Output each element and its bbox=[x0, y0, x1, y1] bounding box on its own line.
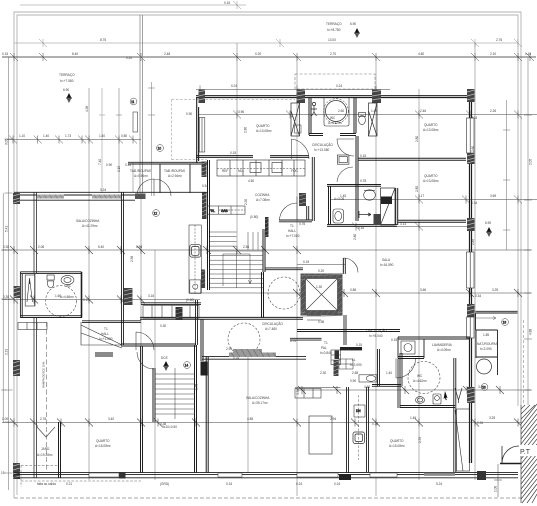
svg-text:5.40: 5.40 bbox=[98, 245, 104, 249]
svg-text:HALL: HALL bbox=[101, 332, 109, 336]
svg-text:SALA/COZINHA: SALA/COZINHA bbox=[76, 219, 100, 223]
svg-text:P.T: P.T bbox=[520, 449, 531, 456]
quarto bottom-left label bbox=[95, 439, 111, 448]
pantry wall x367 bbox=[367, 387, 369, 472]
dimension row y43 labels bbox=[100, 38, 502, 42]
border frame bottom dashed bbox=[14, 497, 537, 499]
svg-text:WC: WC bbox=[330, 116, 336, 120]
kitchen cabinets below stairs2 bbox=[143, 306, 199, 319]
window casement right top bbox=[369, 103, 378, 136]
svg-text:DN: DN bbox=[356, 409, 361, 413]
dimension line y139 left bbox=[7, 136, 141, 144]
circled 19 right bbox=[502, 319, 509, 326]
TAB ROUPAS label 1 bbox=[130, 169, 151, 178]
column hatched x202 y269 bbox=[201, 270, 205, 289]
tank circle bbox=[477, 359, 492, 374]
lavanderia sink bbox=[401, 341, 415, 354]
bath toilet bbox=[47, 275, 54, 288]
wall top of bedrooms y97 bbox=[196, 96, 470, 98]
window sill bar 1 bbox=[37, 195, 64, 199]
svg-text:12: 12 bbox=[154, 211, 158, 215]
hall walls left bbox=[121, 192, 198, 422]
svg-text:h=+8.040: h=+8.040 bbox=[369, 334, 383, 338]
window bar bottom 1 bbox=[89, 473, 119, 477]
window right wall 3 bbox=[467, 317, 475, 338]
svg-text:A=3.08: A=3.08 bbox=[334, 197, 344, 201]
wall left sala y321 bbox=[82, 321, 141, 323]
circulacao label bbox=[312, 142, 333, 152]
north arrow top-right bbox=[354, 28, 360, 38]
svg-text:0.16: 0.16 bbox=[358, 226, 364, 230]
svg-text:2.78: 2.78 bbox=[40, 417, 46, 421]
dimension labels y199 bbox=[340, 194, 496, 205]
column hatched x202 y161 bbox=[202, 162, 207, 178]
svg-text:A=15.08m²: A=15.08m² bbox=[95, 444, 111, 448]
svg-text:4.98: 4.98 bbox=[85, 106, 89, 112]
svg-text:0.24: 0.24 bbox=[336, 84, 342, 88]
dimension labels y250 bbox=[3, 245, 249, 249]
svg-text:2.80: 2.80 bbox=[415, 136, 419, 142]
small boxes center bbox=[331, 350, 341, 365]
svg-text:A=2.94m²: A=2.94m² bbox=[168, 174, 182, 178]
svg-text:QUARTO: QUARTO bbox=[96, 439, 110, 443]
svg-text:2.68: 2.68 bbox=[352, 371, 358, 375]
svg-text:14: 14 bbox=[185, 363, 189, 367]
black blob center bbox=[335, 351, 340, 360]
quarto top-middle label bbox=[256, 124, 272, 133]
cursor mark bbox=[444, 391, 448, 400]
north arrow top-left bbox=[66, 93, 72, 103]
svg-text:2.56: 2.56 bbox=[243, 245, 249, 249]
svg-text:1.40: 1.40 bbox=[99, 134, 105, 138]
svg-text:0.21: 0.21 bbox=[66, 482, 72, 486]
svg-text:A=19.28m²: A=19.28m² bbox=[37, 453, 53, 457]
column hatched x124 y288 bbox=[124, 288, 133, 305]
svg-text:0.80: 0.80 bbox=[121, 134, 127, 138]
lobby top wall bbox=[265, 258, 345, 274]
bath label bbox=[328, 116, 342, 125]
svg-text:h=+7.580: h=+7.580 bbox=[60, 79, 74, 83]
quarto2 label bbox=[423, 174, 439, 183]
svg-text:1.73: 1.73 bbox=[65, 134, 71, 138]
window bar bottom 2 bbox=[218, 473, 242, 477]
cabinet row above stairs bbox=[208, 206, 246, 214]
stair2 arrow line bbox=[223, 254, 252, 286]
grid line x121 bbox=[116, 88, 133, 192]
svg-text:2.31: 2.31 bbox=[5, 349, 9, 355]
cozinha dims bbox=[202, 179, 305, 226]
elevator wall hatch texture bbox=[301, 274, 342, 316]
grid line x475 bbox=[474, 43, 476, 480]
door arc elevator lobby bbox=[344, 258, 359, 273]
door arc bottom right PT bbox=[502, 446, 519, 463]
svg-text:0.30: 0.30 bbox=[160, 324, 166, 328]
window casement wc2 bbox=[381, 188, 396, 225]
svg-text:DCE: DCE bbox=[161, 356, 168, 360]
svg-text:8.40: 8.40 bbox=[72, 52, 78, 56]
svg-text:(0.80): (0.80) bbox=[250, 215, 258, 219]
jardim label bbox=[37, 447, 53, 457]
closet labels bbox=[160, 298, 194, 328]
north arrow right terrace bbox=[485, 221, 492, 237]
quarto top-middle walls bbox=[197, 97, 199, 163]
svg-text:CIRCULAÇÃO: CIRCULAÇÃO bbox=[366, 328, 387, 333]
svg-text:0.70: 0.70 bbox=[290, 339, 296, 343]
svg-text:0.15: 0.15 bbox=[391, 338, 397, 342]
svg-text:2.85: 2.85 bbox=[471, 239, 475, 245]
wc3 sink bbox=[433, 394, 441, 404]
svg-text:WC: WC bbox=[417, 374, 423, 378]
ramp down arrow bbox=[37, 427, 55, 437]
svg-text:TAB./ROUPAS: TAB./ROUPAS bbox=[164, 169, 185, 173]
dashed projection rect top bbox=[295, 74, 375, 89]
svg-text:2.94: 2.94 bbox=[226, 347, 232, 351]
svg-text:4.60: 4.60 bbox=[418, 52, 424, 56]
svg-text:3.25: 3.25 bbox=[492, 288, 498, 292]
corridor cabinet box bbox=[337, 155, 349, 164]
wc3 walls bbox=[398, 358, 456, 408]
column hatched x372 y93 bbox=[372, 90, 381, 104]
svg-text:(0.60): (0.60) bbox=[186, 298, 194, 302]
TAB ROUPAS rooms walls bbox=[128, 162, 207, 193]
window wall y193 left bbox=[14, 192, 207, 200]
svg-text:SALA/COZINHA: SALA/COZINHA bbox=[246, 396, 270, 400]
counter strip left of stair wall bbox=[189, 225, 201, 293]
wc2 toilet bbox=[333, 209, 344, 223]
TERRACO label top-right bbox=[326, 22, 356, 32]
svg-text:falta ac saida: falta ac saida bbox=[37, 482, 56, 486]
wall x347 bottom bbox=[347, 387, 349, 473]
closet with sliding diagonal bbox=[455, 409, 470, 471]
svg-text:FOG: FOG bbox=[291, 169, 298, 173]
gray sill bottom right bbox=[424, 473, 455, 476]
svg-text:(GRD): (GRD) bbox=[160, 482, 169, 486]
svg-text:h=16.590: h=16.590 bbox=[380, 263, 394, 267]
svg-text:0.15: 0.15 bbox=[360, 154, 366, 158]
svg-text:MLL: MLL bbox=[238, 169, 244, 173]
svg-text:CIRCULAÇÃO: CIRCULAÇÃO bbox=[262, 321, 283, 326]
svg-text:PAL: PAL bbox=[321, 346, 327, 350]
svg-text:FRL: FRL bbox=[209, 209, 215, 213]
grid line x419 bbox=[418, 89, 420, 480]
black column corridor bbox=[201, 362, 208, 376]
svg-text:2.26: 2.26 bbox=[490, 109, 496, 113]
dimension line y89 bbox=[196, 86, 390, 94]
svg-text:T1: T1 bbox=[104, 327, 108, 331]
svg-text:2.76: 2.76 bbox=[496, 38, 502, 42]
dashed projection interior bbox=[172, 99, 295, 160]
svg-text:0.15: 0.15 bbox=[83, 298, 89, 302]
bath label bbox=[60, 284, 74, 299]
svg-text:NAT./ROUPAS: NAT./ROUPAS bbox=[477, 342, 498, 346]
desce arrow dark bbox=[161, 356, 169, 371]
dimension row top y5 bbox=[20, 1, 246, 9]
svg-text:0.24: 0.24 bbox=[226, 482, 232, 486]
kitchen counter labels bbox=[222, 169, 298, 173]
quarto bottom-left walls bbox=[59, 357, 209, 478]
kitchen counter top bbox=[217, 160, 305, 176]
wall right closet y311 bbox=[476, 311, 518, 330]
svg-text:1.85: 1.85 bbox=[483, 333, 489, 337]
toilet top bath bbox=[359, 113, 366, 125]
svg-text:2.05: 2.05 bbox=[529, 159, 533, 165]
person figure bbox=[311, 102, 317, 116]
svg-text:CIRCULAÇÃO: CIRCULAÇÃO bbox=[312, 142, 333, 147]
svg-text:2.80: 2.80 bbox=[471, 146, 475, 152]
svg-text:2.56: 2.56 bbox=[130, 256, 134, 262]
svg-text:0.15: 0.15 bbox=[525, 52, 531, 56]
quarto1 label bbox=[423, 123, 439, 132]
dark wall block x135 bbox=[135, 194, 146, 200]
grid line x297 bbox=[296, 57, 298, 496]
wall y330 mid right bbox=[297, 315, 400, 345]
circled 10 bbox=[157, 145, 164, 152]
dimension labels y89 bbox=[231, 84, 342, 88]
column right x468 y153 bbox=[467, 153, 475, 164]
svg-text:2.30: 2.30 bbox=[320, 371, 326, 375]
svg-text:5.93: 5.93 bbox=[136, 245, 142, 249]
svg-text:LL: LL bbox=[352, 358, 356, 362]
svg-text:4.50: 4.50 bbox=[248, 179, 254, 183]
circled 12 bbox=[153, 210, 160, 217]
column hatched x299 y193 bbox=[299, 193, 306, 206]
svg-text:A=13.08m²: A=13.08m² bbox=[423, 128, 439, 132]
grid line x102 bbox=[99, 88, 105, 193]
svg-text:3.40: 3.40 bbox=[108, 417, 114, 421]
svg-text:0.54: 0.54 bbox=[202, 184, 208, 188]
kitchen island bbox=[309, 416, 332, 454]
stair2 upper treads bbox=[210, 232, 258, 250]
svg-text:TERRAÇO: TERRAÇO bbox=[326, 22, 342, 26]
bath right wall dark bbox=[81, 272, 83, 318]
dimension row y57 labels bbox=[2, 52, 531, 60]
rotated dim labels bbox=[5, 106, 533, 443]
svg-text:T1: T1 bbox=[290, 224, 294, 228]
window bar bottom 3 bbox=[297, 473, 338, 477]
svg-text:3.17: 3.17 bbox=[418, 194, 424, 198]
dimension labels y422 bbox=[2, 416, 495, 426]
TERRACO label top-left bbox=[59, 73, 75, 92]
svg-text:A=13.08m²: A=13.08m² bbox=[256, 129, 272, 133]
column right x468 y89 bbox=[467, 89, 475, 102]
hanger V wc3 bbox=[455, 388, 462, 403]
circulacao lower label bbox=[366, 328, 387, 338]
svg-text:0.34: 0.34 bbox=[477, 421, 483, 425]
right exterior wall x470 bbox=[470, 93, 472, 463]
quarto bottom-right label bbox=[389, 439, 405, 448]
dimension labels y139 bbox=[19, 134, 131, 167]
svg-text:A=15.08m²: A=15.08m² bbox=[389, 444, 405, 448]
window casement left top bbox=[291, 103, 300, 136]
svg-text:0.78: 0.78 bbox=[360, 179, 366, 183]
svg-text:0.90: 0.90 bbox=[350, 379, 356, 383]
svg-text:0.24: 0.24 bbox=[334, 482, 340, 486]
dimension line y226 right bbox=[330, 223, 470, 231]
grid line x89 bbox=[88, 88, 90, 480]
dark block quarto2 bbox=[381, 197, 392, 205]
svg-text:A=4.09m²: A=4.09m² bbox=[437, 348, 451, 352]
door arcs hall bbox=[136, 332, 154, 369]
entry stair triangle bbox=[81, 322, 122, 348]
svg-text:1.40: 1.40 bbox=[43, 134, 49, 138]
svg-text:h=+1.090: h=+1.090 bbox=[99, 337, 113, 341]
grid line x152 bbox=[148, 82, 155, 196]
svg-text:1.00: 1.00 bbox=[2, 417, 8, 421]
column frame-left y360 bbox=[13, 360, 20, 376]
bottom wall main bbox=[14, 473, 518, 478]
right outside vertical dimension line bbox=[524, 57, 532, 480]
svg-text:A=4.66m²: A=4.66m² bbox=[60, 295, 74, 299]
svg-text:4.88: 4.88 bbox=[529, 329, 533, 335]
svg-text:A=0.96m²: A=0.96m² bbox=[134, 174, 148, 178]
dimension labels y390 bbox=[364, 385, 484, 389]
duct rect bbox=[133, 112, 138, 132]
grid line x248 bbox=[247, 357, 249, 473]
svg-text:2.70: 2.70 bbox=[330, 52, 336, 56]
svg-text:0.30: 0.30 bbox=[3, 245, 9, 249]
wall y156 kitchen top bbox=[196, 156, 309, 158]
svg-text:SALA: SALA bbox=[382, 258, 391, 262]
svg-text:0.15: 0.15 bbox=[230, 151, 236, 155]
dark block bottom x119 bbox=[119, 472, 126, 479]
dimension line y250 full bbox=[2, 246, 531, 254]
wc3 label bbox=[413, 374, 427, 383]
dimension line y299 left bbox=[2, 296, 200, 304]
svg-text:2.85: 2.85 bbox=[415, 186, 419, 192]
wall PT bbox=[500, 463, 523, 465]
circulacao label mid bbox=[262, 321, 283, 331]
svg-text:15: 15 bbox=[1, 471, 5, 475]
shower enclosure top bath bbox=[324, 98, 349, 126]
svg-text:REF: REF bbox=[222, 169, 228, 173]
svg-text:1.75: 1.75 bbox=[195, 384, 199, 390]
giro dashed circle hall2 bbox=[228, 323, 260, 355]
terrace divider wall x141 bbox=[140, 15, 143, 193]
niche box bbox=[295, 125, 302, 133]
hanger V symbol wc2 bbox=[359, 211, 371, 218]
closet corridor wall y303 bbox=[141, 303, 201, 305]
svg-text:A=4.62m²: A=4.62m² bbox=[413, 379, 427, 383]
bath shower stall bbox=[25, 275, 35, 306]
lav counter with oval bbox=[359, 375, 377, 382]
svg-text:TAB./ROUPAS: TAB./ROUPAS bbox=[130, 169, 151, 173]
dimension labels y299 bbox=[3, 294, 154, 302]
svg-text:WC: WC bbox=[66, 284, 72, 288]
svg-text:0.90: 0.90 bbox=[106, 163, 112, 167]
svg-text:3.33: 3.33 bbox=[296, 389, 300, 395]
lav walls bbox=[290, 338, 402, 386]
ramp dashed line bbox=[46, 322, 48, 470]
lav black bar bbox=[340, 347, 362, 350]
dimension line y114 right bbox=[198, 111, 537, 119]
svg-text:2.46: 2.46 bbox=[420, 109, 426, 113]
svg-text:19: 19 bbox=[503, 320, 507, 324]
svg-text:5.41: 5.41 bbox=[5, 226, 9, 232]
column hatched x202 y192 bbox=[202, 193, 207, 220]
wc3 toilet bbox=[416, 397, 425, 404]
gray rail band center-left bbox=[233, 349, 262, 354]
dimension line y390 bbox=[297, 386, 531, 394]
cozinha label bbox=[255, 193, 270, 202]
svg-text:GAB: GAB bbox=[221, 209, 228, 213]
svg-text:0.20: 0.20 bbox=[255, 52, 261, 56]
svg-text:0.76: 0.76 bbox=[299, 222, 305, 226]
svg-text:0.90: 0.90 bbox=[186, 112, 192, 116]
black block bottom center bbox=[339, 474, 351, 480]
svg-text:6.90: 6.90 bbox=[485, 221, 491, 225]
column hatched x291 y93 bbox=[297, 90, 306, 104]
svg-text:3.05: 3.05 bbox=[5, 139, 9, 145]
grid line x237 bbox=[236, 43, 238, 250]
elevator shaft bbox=[301, 274, 343, 318]
dashed area bottom-left bbox=[21, 466, 141, 488]
svg-text:h=+8.780: h=+8.780 bbox=[327, 28, 341, 32]
dimension line y199 right bbox=[330, 196, 537, 204]
svg-text:h=+7.080: h=+7.080 bbox=[286, 234, 300, 238]
nat roupas room right bbox=[476, 330, 498, 375]
elevator door opening bbox=[307, 316, 321, 321]
grid line x155 bbox=[154, 250, 156, 480]
lavanderia label bbox=[432, 343, 453, 352]
circled 11 bbox=[130, 98, 137, 105]
svg-text:8.75: 8.75 bbox=[100, 38, 106, 42]
svg-text:0.24: 0.24 bbox=[296, 482, 302, 486]
elevator dims bbox=[316, 269, 324, 324]
svg-text:A=4.67m²: A=4.67m² bbox=[328, 121, 342, 125]
svg-text:2.10: 2.10 bbox=[490, 52, 496, 56]
circled 13 right bbox=[481, 384, 488, 391]
svg-text:0.20: 0.20 bbox=[126, 56, 132, 60]
balcony gray band bbox=[229, 353, 276, 358]
window right wall 1 bbox=[467, 118, 475, 153]
svg-text:TERRAÇO: TERRAÇO bbox=[59, 73, 75, 77]
svg-text:A=13.08m²: A=13.08m² bbox=[423, 179, 439, 183]
svg-text:QUARTO: QUARTO bbox=[424, 123, 438, 127]
counter stove box bbox=[190, 280, 201, 294]
svg-text:2.48: 2.48 bbox=[164, 52, 170, 56]
svg-text:h=0.840: h=0.840 bbox=[320, 351, 332, 355]
t1 hall small text center bbox=[320, 341, 332, 355]
bath giro circle bbox=[46, 286, 77, 317]
sala cozinha left label bbox=[76, 219, 100, 228]
svg-text:A=7.480: A=7.480 bbox=[265, 327, 277, 331]
svg-text:RAMPA DESCE 10%: RAMPA DESCE 10% bbox=[42, 361, 46, 388]
svg-text:h=+13.080: h=+13.080 bbox=[314, 148, 329, 152]
svg-text:HALL: HALL bbox=[288, 229, 296, 233]
lav dims bbox=[290, 338, 397, 383]
svg-text:0.15: 0.15 bbox=[303, 260, 309, 264]
svg-text:3.66: 3.66 bbox=[420, 288, 426, 292]
svg-text:QUARTO: QUARTO bbox=[424, 174, 438, 178]
dimension labels y226 bbox=[358, 222, 406, 230]
balcony hatch ticks bbox=[231, 353, 276, 358]
column right x468 y288 bbox=[467, 304, 475, 318]
door arc wc3 bbox=[396, 359, 416, 379]
stair2 treads bbox=[210, 251, 263, 288]
bath small cabinets below bbox=[18, 323, 47, 330]
svg-text:6.90: 6.90 bbox=[350, 22, 356, 26]
PT label white box bbox=[519, 445, 537, 456]
giro dashed circle lobby bbox=[268, 277, 300, 309]
column hatched x196 y93 bbox=[199, 90, 206, 104]
svg-text:0.86: 0.86 bbox=[350, 288, 356, 292]
line above elevator bbox=[297, 264, 345, 266]
svg-text:2.33: 2.33 bbox=[418, 437, 422, 443]
svg-text:0.30: 0.30 bbox=[3, 295, 9, 299]
svg-text:h=2.090: h=2.090 bbox=[480, 347, 492, 351]
svg-text:1.40: 1.40 bbox=[386, 371, 392, 375]
wall y221 bottom of quarto2 bbox=[398, 220, 466, 222]
